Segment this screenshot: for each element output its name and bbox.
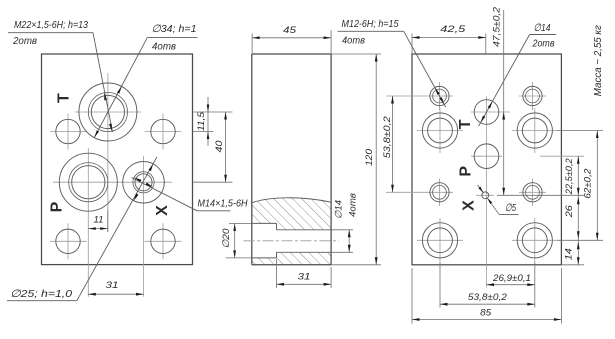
dimension 11 xyxy=(107,210,109,232)
svg-text:∅14: ∅14 xyxy=(534,22,551,34)
centerline corner row top xyxy=(417,130,463,132)
leader O14 right xyxy=(479,35,530,127)
svg-text:120: 120 xyxy=(364,148,375,166)
dimension 53,8+-0,2 vertical xyxy=(392,96,394,192)
svg-text:47,5±0,2: 47,5±0,2 xyxy=(491,6,502,47)
centerline M12 top row xyxy=(386,95,453,97)
svg-text:4отв: 4отв xyxy=(342,35,365,47)
right view plate outline xyxy=(412,54,561,265)
centerline corner columns vertical xyxy=(439,108,441,153)
svg-text:62±0,2: 62±0,2 xyxy=(583,168,594,199)
dimension 85 xyxy=(411,268,413,324)
leader O34 xyxy=(94,38,147,138)
centerline X row (M12 bottom row) xyxy=(386,191,453,193)
section centerline xyxy=(244,240,340,242)
svg-text:M14×1,5-6H: M14×1,5-6H xyxy=(198,198,248,210)
M12 hole bottom-left xyxy=(430,183,449,202)
leader O5 xyxy=(487,198,499,214)
svg-text:11,5: 11,5 xyxy=(196,111,207,131)
svg-text:53,8±0,2: 53,8±0,2 xyxy=(468,292,508,303)
dimension 22,5+-0,2 xyxy=(577,156,579,195)
centerline center column vertical xyxy=(486,97,488,288)
svg-text:X: X xyxy=(460,200,477,211)
M12 hole top-right xyxy=(523,86,542,105)
svg-text:P: P xyxy=(458,166,475,177)
corner hole O20 cbore top-right xyxy=(517,113,552,148)
middle view top edge xyxy=(252,53,331,55)
middle view bottom edge xyxy=(252,264,331,266)
M12 hole top-left xyxy=(430,86,449,105)
left view plate outline xyxy=(42,54,193,265)
corner hole O20 cbore bottom-left xyxy=(422,223,457,258)
centerline X column vertical xyxy=(143,156,145,297)
dimension 31 left view xyxy=(88,293,143,295)
centerline P/X row horizontal xyxy=(53,181,172,183)
svg-text:M22×1,5-6H; h=13: M22×1,5-6H; h=13 xyxy=(14,19,88,31)
middle view right edge xyxy=(330,54,332,265)
svg-text:26,9±0,1: 26,9±0,1 xyxy=(492,273,531,284)
corner hole O14 bottom-left xyxy=(56,229,80,253)
svg-text:14: 14 xyxy=(564,248,575,260)
svg-text:2отв: 2отв xyxy=(532,38,555,50)
svg-text:26: 26 xyxy=(564,204,575,218)
middle view left edge xyxy=(251,54,253,265)
dimension 45 xyxy=(251,34,253,55)
leader M12 xyxy=(404,31,446,107)
corner hole O20 cbore bottom-right xyxy=(517,223,552,258)
pilot hole O5 xyxy=(482,192,489,199)
svg-text:4отв: 4отв xyxy=(348,193,359,217)
svg-text:2отв: 2отв xyxy=(12,35,37,47)
svg-text:45: 45 xyxy=(283,25,297,36)
svg-text:T: T xyxy=(55,93,72,103)
centerline T column vertical xyxy=(107,73,109,232)
svg-text:X: X xyxy=(154,205,171,216)
corner hole O14 bottom-right xyxy=(151,229,175,253)
leader M22 xyxy=(93,33,113,132)
leader O25 xyxy=(77,157,157,301)
centerline O5 row extension xyxy=(476,194,494,196)
svg-text:11: 11 xyxy=(94,214,104,225)
dimension O20 xyxy=(229,222,252,224)
dimension 31 section xyxy=(276,259,278,288)
hole P M22 drill xyxy=(72,166,105,199)
centerline P column vertical xyxy=(87,148,89,297)
svg-text:∅34; h=1: ∅34; h=1 xyxy=(152,23,197,35)
dimension 120 xyxy=(331,53,381,55)
M12 hole bottom-right xyxy=(523,183,542,202)
svg-text:M12-6H; h=15: M12-6H; h=15 xyxy=(342,18,399,30)
centerline corner hole top-right xyxy=(145,131,182,133)
svg-text:∅14: ∅14 xyxy=(334,200,345,219)
svg-text:P: P xyxy=(49,201,66,212)
dimension 14 xyxy=(577,240,579,264)
hole T M22 port: spotface O34 xyxy=(79,83,137,141)
dimension 40 xyxy=(193,181,233,183)
hole X M14 port: spotface O25 xyxy=(123,162,165,204)
dimension 62+-0,2 xyxy=(596,131,598,241)
dimension 42,5 xyxy=(411,34,413,55)
hole P M22 thread major xyxy=(69,163,108,202)
corner hole O20 cbore top-left xyxy=(422,113,457,148)
corner hole O14 top-left xyxy=(56,119,80,143)
dimension 26 xyxy=(577,195,579,240)
centerline T row horizontal xyxy=(75,111,141,113)
hole X M14 drill xyxy=(135,174,152,191)
svg-text:4отв: 4отв xyxy=(152,41,176,53)
svg-text:42,5: 42,5 xyxy=(440,24,466,35)
centerline M12 columns xyxy=(439,82,441,110)
svg-text:31: 31 xyxy=(106,280,119,291)
hole X M14 thread major xyxy=(133,172,154,193)
centerline corner hole bottom-right xyxy=(145,240,182,242)
dimension 47,5+-0,2 xyxy=(503,10,505,195)
dimension 26,9+-0,1 xyxy=(534,262,536,308)
center hole P xyxy=(474,144,499,169)
hole O14 outline in section xyxy=(277,229,332,231)
svg-text:40: 40 xyxy=(214,140,225,153)
centerline M12 top right xyxy=(519,95,546,97)
svg-text:31: 31 xyxy=(298,272,311,283)
svg-text:Масса ~ 2,55 кг: Масса ~ 2,55 кг xyxy=(593,25,604,96)
corner hole O14 top-right xyxy=(151,119,175,143)
centerline P row xyxy=(471,155,502,157)
svg-text:53,8±0,2: 53,8±0,2 xyxy=(382,115,393,158)
svg-text:22,5±0,2: 22,5±0,2 xyxy=(564,158,575,196)
hole T M22 thread major xyxy=(88,92,127,131)
centerline corner hole bottom-left xyxy=(50,240,87,242)
middle view hatched section area xyxy=(252,198,331,265)
extension bottom edge right xyxy=(561,264,584,266)
svg-text:∅5: ∅5 xyxy=(505,202,516,214)
centerline O14 row xyxy=(471,111,510,113)
svg-text:T: T xyxy=(457,119,474,129)
middle view break wavy line xyxy=(252,198,331,203)
center hole O14 T xyxy=(474,100,499,125)
centerline corner row bottom xyxy=(417,239,463,241)
counterbore O20 outline xyxy=(252,222,277,224)
svg-text:∅25; h=1,0: ∅25; h=1,0 xyxy=(10,288,72,300)
centerline corner hole top-left xyxy=(50,131,87,133)
dimension 53,8+-0,2 bottom xyxy=(439,262,441,308)
svg-text:85: 85 xyxy=(480,308,492,319)
dimension 11,5 xyxy=(193,111,233,113)
svg-text:∅20: ∅20 xyxy=(221,228,232,249)
dimension O14 4otv xyxy=(331,229,353,231)
hole T M22 drill xyxy=(91,95,124,128)
hole P M22 port: spotface O34 xyxy=(59,153,117,211)
leader M14 xyxy=(132,178,198,211)
